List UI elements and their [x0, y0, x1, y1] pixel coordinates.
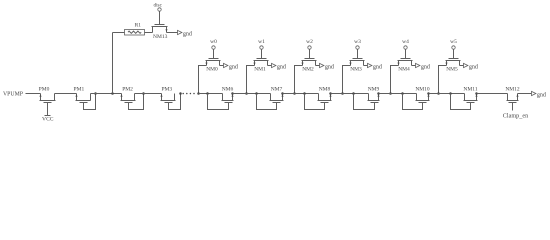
ground port (disc branch) [178, 30, 192, 37]
svg-text:gnd: gnd [277, 64, 286, 70]
transistor NM12 (NMOS clamp) [507, 94, 519, 103]
svg-text:VPUMP: VPUMP [3, 91, 23, 97]
junction dot NM7 gate tap [255, 92, 258, 95]
svg-text:NM8: NM8 [319, 87, 331, 93]
svg-text:gnd: gnd [537, 92, 546, 98]
wire NM1 source to gnd [268, 65, 272, 67]
svg-text:NM7: NM7 [271, 87, 283, 93]
svg-text:PM3: PM3 [161, 86, 172, 92]
transistor PM1 (PMOS diode-connected) [75, 94, 95, 110]
transistor NM4 (NMOS, gate up) [397, 59, 412, 66]
wire rail into NM11 [429, 93, 465, 95]
svg-text:NM4: NM4 [398, 67, 410, 73]
svg-text:PM0: PM0 [39, 86, 50, 92]
wire NM5 drain down to rail [439, 66, 447, 94]
junction dot NM9 gate tap [352, 92, 355, 95]
rail continuation dots (ellipsis) [182, 93, 194, 95]
junction dot rail node 0 [197, 92, 200, 95]
junction dot NM9 drain [377, 92, 380, 95]
port w5 [450, 39, 457, 49]
wire NM0 source to gnd [220, 65, 224, 67]
wire PM0 gate lead down to VCC [47, 103, 49, 116]
transistor NM10 (NMOS diode-connected) [403, 94, 430, 110]
svg-text:gnd: gnd [229, 64, 238, 70]
svg-text:VCC: VCC [42, 117, 54, 123]
svg-text:w4: w4 [402, 39, 409, 45]
junction dot NM6 gate tap [206, 92, 209, 95]
wire rail into NM6 [199, 93, 223, 95]
wire PM2 drain to PM3 source [135, 93, 162, 95]
junction dot NM10 drain [427, 92, 430, 95]
transistor PM3 (PMOS diode-connected) [160, 94, 180, 110]
svg-text:w1: w1 [258, 39, 265, 45]
transistor NM0 (NMOS, gate up) [205, 59, 220, 66]
wire w2 to NM2 gate [309, 50, 311, 59]
wire NM1 drain down to rail [247, 66, 255, 94]
svg-text:R1: R1 [135, 23, 142, 29]
transistor NM7 (NMOS diode-connected) [257, 94, 284, 110]
svg-text:w5: w5 [450, 39, 457, 45]
junction dot rail node 5 [437, 92, 440, 95]
resistor R1 [125, 30, 145, 36]
wire NM12 gate down [512, 103, 514, 111]
svg-text:NM1: NM1 [254, 67, 266, 73]
svg-text:gnd: gnd [325, 64, 334, 70]
transistor NM3 (NMOS, gate up) [349, 59, 364, 66]
svg-text:NM10: NM10 [415, 87, 430, 93]
ground port (w5 cell) [464, 63, 478, 70]
port disc [154, 3, 163, 12]
junction dot PM2 gate-drain [142, 92, 145, 95]
svg-text:NM12: NM12 [505, 87, 520, 93]
junction dot rail node 4 [389, 92, 392, 95]
ground port (output) [532, 91, 546, 98]
svg-text:gnd: gnd [469, 64, 478, 70]
transistor NM5 (NMOS, gate up) [445, 59, 460, 66]
svg-text:w0: w0 [210, 39, 217, 45]
transistor NM8 (NMOS diode-connected) [305, 94, 332, 110]
junction dot NM11 drain [475, 92, 478, 95]
transistor NM9 (NMOS diode-connected) [354, 94, 380, 110]
wire NM2 source to gnd [316, 65, 320, 67]
ground port (w2 cell) [320, 63, 334, 70]
wire rail into NM10 [379, 93, 417, 95]
wire NM3 source to gnd [364, 65, 368, 67]
transistor NM1 (NMOS, gate up) [253, 59, 268, 66]
junction dot NM10 gate tap [401, 92, 404, 95]
port w0 [210, 39, 217, 49]
svg-text:Clamp_en: Clamp_en [503, 113, 528, 120]
wire NM5 source to gnd [460, 65, 464, 67]
svg-text:NM3: NM3 [350, 67, 362, 73]
wire rail into NM8 [283, 93, 319, 95]
transistor NM13 (NMOS, gate up) [152, 25, 168, 33]
wire VPUMP to PM0 source [26, 93, 41, 95]
svg-text:w2: w2 [306, 39, 313, 45]
svg-text:gnd: gnd [183, 31, 192, 37]
wire rail tap up to R1 [112, 33, 114, 94]
ground port (w4 cell) [416, 63, 430, 70]
power VCC terminal [42, 116, 54, 123]
port w3 [354, 39, 361, 49]
ground port (w3 cell) [368, 63, 382, 70]
wire rail into NM7 [233, 93, 271, 95]
wire PM1 drain to PM2 source [91, 93, 122, 95]
junction dot PM3 gate-drain [179, 92, 182, 95]
port w4 [402, 39, 409, 49]
junction dot NM8 gate tap [303, 92, 306, 95]
junction dot rail node 2 [293, 92, 296, 95]
wire NM0 drain down to rail [199, 66, 207, 94]
svg-text:NM13: NM13 [153, 34, 168, 40]
svg-text:NM0: NM0 [206, 67, 218, 73]
wire w5 to NM5 gate [453, 50, 455, 59]
wire NM12 source to gnd [518, 93, 532, 95]
wire w3 to NM3 gate [357, 50, 359, 59]
junction dot NM11 gate tap [449, 92, 452, 95]
transistor PM0 (PMOS, gate to VCC) [39, 94, 55, 103]
wire NM13 gate to disc port [159, 12, 161, 25]
svg-text:PM1: PM1 [74, 86, 85, 92]
svg-text:w3: w3 [354, 39, 361, 45]
svg-text:NM9: NM9 [368, 87, 380, 93]
junction dot NM6 drain [231, 92, 234, 95]
wire R1 to NM13 drain [145, 32, 153, 34]
svg-text:gnd: gnd [421, 64, 430, 70]
svg-text:gnd: gnd [373, 64, 382, 70]
svg-text:NM5: NM5 [446, 67, 458, 73]
transistor PM2 (PMOS diode-connected) [120, 94, 143, 110]
svg-text:NM2: NM2 [302, 67, 314, 73]
svg-text:NM6: NM6 [222, 87, 234, 93]
port w2 [306, 39, 313, 49]
wire PM0 drain to PM1 source [55, 93, 77, 95]
wire NM4 source to gnd [412, 65, 416, 67]
port w1 [258, 39, 265, 49]
wire NM4 drain down to rail [391, 66, 399, 94]
wire w1 to NM1 gate [261, 50, 263, 59]
wire NM13 source to gnd [167, 32, 178, 34]
transistor NM6 (NMOS diode-connected) [208, 94, 234, 110]
junction dot rail node 3 [341, 92, 344, 95]
transistor NM11 (NMOS diode-connected) [451, 94, 478, 110]
wire w0 to NM0 gate [213, 50, 215, 59]
ground port (w1 cell) [272, 63, 286, 70]
wire rail into NM12 [477, 93, 508, 95]
junction dot NM8 drain [329, 92, 332, 95]
junction dot R1 branch [111, 92, 114, 95]
transistor NM2 (NMOS, gate up) [301, 59, 316, 66]
wire rail into NM9 [331, 93, 369, 95]
ground port (w0 cell) [224, 63, 238, 70]
junction dot PM1 gate-drain [94, 92, 97, 95]
junction dot NM7 drain [281, 92, 284, 95]
wire w4 to NM4 gate [405, 50, 407, 59]
wire NM2 drain down to rail [295, 66, 303, 94]
svg-text:disc: disc [154, 3, 163, 9]
junction dot rail node 1 [245, 92, 248, 95]
wire NM3 drain down to rail [343, 66, 351, 94]
svg-text:PM2: PM2 [122, 86, 133, 92]
svg-text:NM11: NM11 [463, 87, 477, 93]
